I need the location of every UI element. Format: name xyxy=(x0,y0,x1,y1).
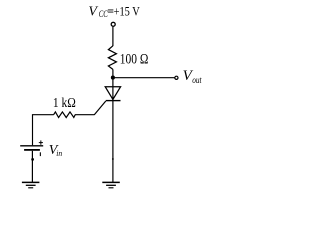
terminal Vcc (open circle) xyxy=(111,22,115,26)
SCR gate lead (diagonal) xyxy=(94,101,106,115)
svg-text:out: out xyxy=(192,75,202,85)
wire SCR cathode to center ground xyxy=(112,101,114,182)
wire node A to SCR anode xyxy=(112,78,114,87)
svg-text:in: in xyxy=(56,148,62,158)
ground left (earth) xyxy=(22,182,40,187)
svg-text:1 kΩ: 1 kΩ xyxy=(53,95,76,110)
label Vcc = +15 V xyxy=(88,4,139,20)
SCR cathode bar xyxy=(106,100,121,102)
wire node A to Vout terminal xyxy=(113,77,175,79)
wire 100Ω bottom to node A xyxy=(112,69,114,77)
resistor 1 kΩ (horizontal zigzag) xyxy=(54,112,76,118)
svg-text:100 Ω: 100 Ω xyxy=(120,51,149,67)
terminal Vout (open circle) xyxy=(175,76,178,79)
label + polarity xyxy=(39,140,43,144)
wire 1kΩ to corner to battery positive xyxy=(33,115,54,146)
resistor 100Ω (vertical zigzag) xyxy=(108,46,116,70)
wire battery negative to left ground xyxy=(31,151,33,182)
ground center (earth) xyxy=(102,182,120,187)
battery Vin negative plate (short thick) xyxy=(24,149,40,151)
svg-text:+15 V: +15 V xyxy=(114,4,140,18)
junction dot on cathode wire xyxy=(112,158,114,160)
SCR U1 triangle (anode-cathode) xyxy=(105,87,120,100)
wire gate to 1kΩ resistor xyxy=(75,114,95,116)
node A (junction dot) xyxy=(111,76,115,80)
label Vin xyxy=(49,143,62,158)
label Vout xyxy=(183,68,202,85)
junction dot on battery wire xyxy=(31,158,34,161)
wire Vcc terminal to 100Ω resistor top xyxy=(112,27,114,46)
svg-text:V: V xyxy=(88,4,98,19)
wire through SCR (anode to cathode bar) xyxy=(112,87,114,101)
label - polarity (vertical tick) xyxy=(40,152,41,156)
battery Vin positive plate (long) xyxy=(20,145,43,147)
